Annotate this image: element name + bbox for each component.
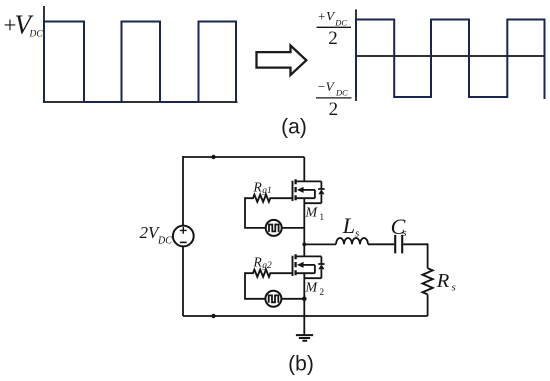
M2 drain lead [303, 244, 305, 256]
M2 source horizontal [297, 272, 315, 274]
M1 drain horizontal to diode [297, 180, 322, 182]
resistor Rg1 [245, 195, 293, 202]
inductor Ls [336, 238, 368, 244]
gate loop wire M1 [245, 197, 266, 228]
svg-text:s: s [402, 227, 406, 239]
node dot midpoint [302, 243, 306, 247]
left rail wire upper [182, 156, 184, 226]
bottom rail wire [183, 315, 428, 317]
M2 body arrow [302, 264, 315, 266]
left waveform axis (vertical) [43, 6, 45, 103]
M1 body return wire [314, 190, 316, 198]
M2 body diode [304, 256, 324, 278]
top rail wire [183, 156, 304, 158]
svg-text:R: R [436, 270, 450, 292]
svg-text:(b): (b) [288, 353, 314, 376]
svg-text:1: 1 [319, 213, 324, 223]
M2 drain horizontal to diode [297, 255, 322, 257]
left rail wire lower [182, 246, 184, 316]
svg-text:2: 2 [328, 28, 338, 49]
svg-text:M: M [305, 281, 319, 296]
ground stem [303, 316, 305, 335]
left square wave (unipolar 0..+VDC) [44, 22, 236, 103]
svg-text:s: s [452, 282, 456, 294]
M2 source lead down to rail [303, 273, 305, 316]
right square wave (bipolar +-VDC/2) [356, 20, 545, 100]
M1 gate plate [292, 181, 294, 201]
svg-text:(a): (a) [281, 115, 307, 138]
right waveform axis (vertical) [355, 9, 357, 101]
left waveform baseline axis [43, 101, 237, 103]
svg-text:L: L [342, 213, 355, 238]
M1 drain lead [303, 157, 305, 181]
resistor Rg2 [245, 270, 293, 277]
M1 source lead down [303, 198, 305, 244]
node dot top rail [211, 155, 215, 159]
node dot VG2 junction [302, 297, 307, 302]
transistor M1 [293, 157, 325, 244]
svg-text:M: M [305, 206, 319, 221]
wire Cs to corner [403, 243, 427, 245]
node dot bottom rail [211, 314, 215, 318]
svg-text:DC: DC [334, 17, 347, 27]
gate loop wire M2 [245, 272, 265, 299]
M1 source horizontal [297, 197, 315, 199]
wire Rs to bottom rail [427, 294, 429, 316]
source V1 2VDC circle [173, 226, 194, 247]
wire VG1 to source node [282, 227, 305, 229]
block arrow [257, 46, 307, 76]
svg-text:DC: DC [335, 88, 348, 98]
M2 channel bars [294, 254, 296, 275]
square wave glyph VG2 [269, 295, 279, 302]
M2 gate plate [292, 256, 294, 276]
ground [296, 335, 313, 341]
svg-text:2: 2 [329, 99, 339, 120]
svg-text:R: R [253, 255, 263, 270]
svg-text:DC: DC [157, 235, 172, 246]
gate drive source VG1 circle [266, 220, 282, 236]
M1 body arrow [302, 189, 315, 191]
svg-text:g1: g1 [262, 186, 272, 196]
gate drive source VG2 circle [265, 291, 281, 307]
svg-text:DC: DC [29, 30, 44, 40]
svg-text:s: s [355, 227, 359, 239]
capacitor Cs [395, 235, 402, 254]
wire Ls to Cs [368, 243, 394, 245]
M1 body diode [304, 181, 324, 203]
output wire midpoint to inductor [304, 243, 336, 245]
M2 body return wire [314, 265, 316, 273]
wire corner down to Rs [427, 243, 429, 268]
svg-text:g2: g2 [262, 261, 272, 271]
right waveform zero line [356, 55, 546, 57]
M1 channel bars [294, 179, 296, 200]
plus sign [180, 227, 187, 234]
resistor Rs [423, 268, 433, 294]
square wave glyph VG1 [269, 225, 279, 232]
svg-text:+V: +V [317, 9, 336, 24]
svg-text:R: R [253, 180, 263, 195]
minus sign [180, 241, 187, 243]
svg-text:−V: −V [317, 79, 336, 94]
svg-text:2: 2 [319, 288, 324, 298]
transistor M2 [293, 244, 325, 316]
wire VG2 to source node [281, 298, 304, 300]
